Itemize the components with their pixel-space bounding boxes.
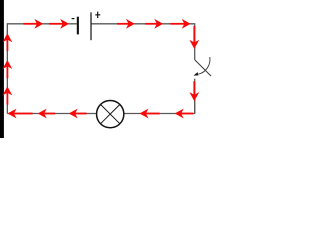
switch blade — [195, 60, 211, 76]
current arrow L1 (left wire, upward) — [4, 34, 12, 51]
positive plate — [90, 12, 91, 40]
current arrow B4 (bottom wire, leftward) — [39, 110, 56, 118]
wire left segment — [6, 30, 8, 114]
current arrow B2 (bottom wire, leftward) — [140, 110, 159, 118]
current arrow B1 (bottom wire, leftward) — [176, 110, 194, 118]
current arrow T5 (top wire, rightward) — [170, 20, 190, 28]
current arrow T2 (top wire, rightward) — [49, 20, 68, 28]
switch motion arrowhead — [193, 72, 198, 76]
current arrow B3 (bottom wire, leftward) — [70, 110, 87, 118]
current arrow T3 (top wire, rightward) — [117, 20, 134, 28]
wire top-left segment — [7, 24, 76, 34]
wire bottom-left segment — [7, 113, 96, 115]
lamp L1 — [97, 100, 124, 127]
negative plate — [77, 17, 79, 35]
current arrow B5 (bottom wire, leftward) — [8, 110, 32, 118]
wire right lower segment (switch bottom contact) — [194, 79, 196, 114]
switch S1 (open, with closing-motion arrow) — [193, 57, 211, 76]
wire bottom-right segment — [124, 99, 195, 114]
current arrow T4 (top wire, rightward) — [145, 20, 162, 28]
switch motion arc — [198, 57, 210, 74]
wire top-right segment — [91, 24, 195, 60]
positive label + — [95, 12, 100, 18]
current arrow R1 (right wire, downward) — [190, 26, 198, 48]
left window frame bar — [0, 0, 4, 138]
current arrow L2 (left wire, upward) — [4, 61, 12, 79]
battery cell B1 — [72, 12, 101, 41]
current arrow L3 (left wire, upward) — [4, 87, 12, 105]
current arrow R2 (right wire, downward) — [190, 81, 198, 100]
negative label - — [72, 18, 75, 20]
current arrow T1 (top wire, rightward) — [23, 20, 42, 28]
